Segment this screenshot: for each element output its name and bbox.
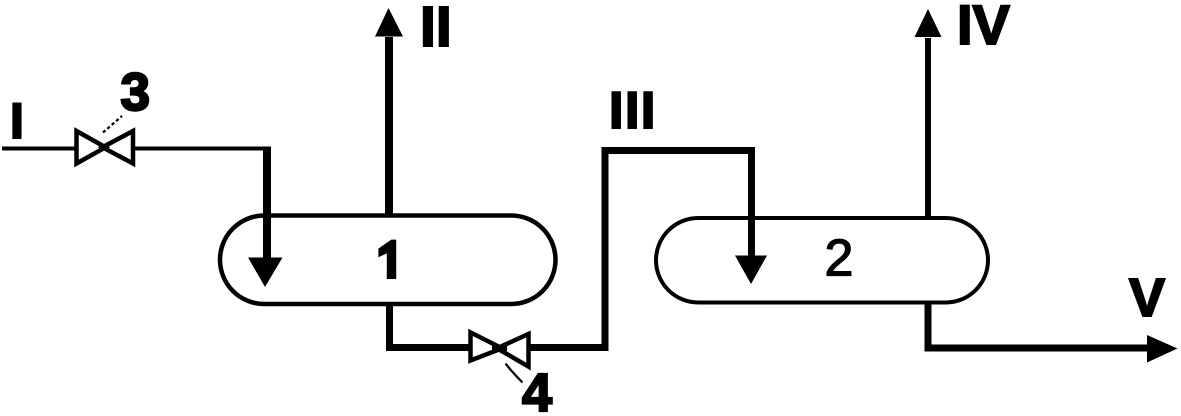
pipe vessel 1 bottom outlet xyxy=(386,304,393,351)
pipe from valve 3 to corner xyxy=(133,147,271,151)
svg-text:3: 3 xyxy=(121,63,150,122)
pipe stream I inlet xyxy=(2,147,78,151)
pipe vessel 2 bottom outlet xyxy=(925,303,932,352)
svg-text:I: I xyxy=(10,93,24,149)
pipe from valve 4 to riser xyxy=(528,344,609,351)
pipe to valve 4 xyxy=(386,344,471,351)
arrowhead into vessel 2 xyxy=(735,256,767,285)
arrowhead II xyxy=(375,8,403,37)
svg-text:II: II xyxy=(420,0,452,59)
valve 3 xyxy=(77,131,134,164)
label 1 xyxy=(378,240,396,279)
pipe stream II riser xyxy=(385,37,393,217)
svg-text:V: V xyxy=(1129,268,1165,328)
vessel 1 xyxy=(220,216,556,305)
pipe drop into vessel 2 xyxy=(748,147,755,257)
valve 4 xyxy=(471,332,529,366)
svg-text:IV: IV xyxy=(957,0,1010,56)
svg-text:4: 4 xyxy=(522,363,552,416)
arrowhead V xyxy=(1147,335,1178,363)
arrowhead into vessel 1 xyxy=(248,258,283,288)
pipe drop into vessel 1 xyxy=(263,147,271,260)
leader line to label 4 xyxy=(506,364,523,383)
pipe stream III top run xyxy=(602,147,756,154)
leader line to label 3 xyxy=(103,116,122,133)
arrowhead IV xyxy=(915,9,942,37)
pipe stream III riser xyxy=(602,147,609,351)
vessel 2 xyxy=(656,218,988,303)
svg-text:III: III xyxy=(609,82,657,140)
pipe stream V run xyxy=(925,345,1151,352)
svg-text:2: 2 xyxy=(825,230,854,288)
pipe stream IV riser xyxy=(925,38,931,219)
valve 4 center stub xyxy=(492,346,507,352)
